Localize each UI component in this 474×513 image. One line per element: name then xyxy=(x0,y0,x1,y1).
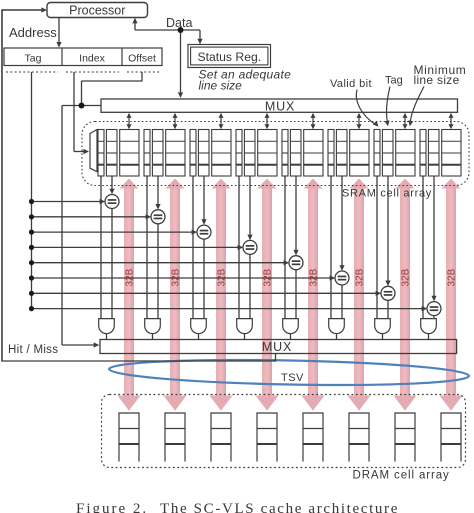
node tag bus junction 3 xyxy=(29,230,34,235)
MUX (upper, line-size select) xyxy=(101,99,458,112)
svg-text:Valid bit: Valid bit xyxy=(330,78,372,90)
wire MUX-SRAM bidirectional arrow 6 xyxy=(358,117,360,126)
wire AND gate 3 output to MUX xyxy=(198,334,200,340)
wire MUX-SRAM bidirectional arrow 1 xyxy=(128,117,130,126)
wire comparator 6 output xyxy=(341,285,343,319)
comparator 8 xyxy=(427,302,441,316)
SRAM way 3 tag column xyxy=(198,130,209,177)
wire comparator 4 output xyxy=(249,254,251,318)
pink data path arrow 7 (SRAM-DRAM 32B transfer) xyxy=(394,179,417,411)
wire Index field to row decoder xyxy=(73,72,75,152)
SRAM way 1 tag column xyxy=(106,130,117,177)
wire tag compare bus 8 xyxy=(32,308,423,310)
SRAM way 6 data column xyxy=(350,130,369,177)
SRAM way 3 data column xyxy=(212,130,231,177)
wire stored tag 8 to comparator xyxy=(433,176,435,296)
row decoder trapezoid xyxy=(90,130,97,172)
svg-text:MUX: MUX xyxy=(262,340,292,354)
SRAM cell array dashed box xyxy=(82,122,469,186)
SRAM way 5 data column xyxy=(304,130,323,177)
SRAM way 7 data column xyxy=(396,130,415,177)
DRAM bank 3 cells xyxy=(210,413,212,462)
DRAM bank 2 cells xyxy=(164,413,166,462)
wire AND gate 1 output to MUX xyxy=(106,334,108,340)
AND gate 2 xyxy=(145,319,161,334)
wire valid bit 3 to gate xyxy=(192,176,194,319)
node tag bus junction 8 xyxy=(29,306,34,311)
SRAM way 5 valid-bit column xyxy=(282,130,288,177)
wire tag compare bus 2 xyxy=(32,216,147,218)
wire comparator 3 output xyxy=(203,239,205,319)
SRAM way 4 tag column xyxy=(244,130,255,177)
svg-text:Address: Address xyxy=(9,25,57,40)
wire stored tag 3 to comparator xyxy=(203,176,205,220)
svg-text:DRAM cell array: DRAM cell array xyxy=(353,470,450,482)
wire valid bit 7 to gate xyxy=(376,176,378,319)
wire comparator 8 output xyxy=(433,316,435,319)
comparator 2 xyxy=(151,210,165,224)
wire valid bit 4 to gate xyxy=(238,176,240,319)
wire AND gate 4 output to MUX xyxy=(244,334,246,340)
wire tag compare bus 7 xyxy=(32,292,377,294)
wire tag compare bus 3 xyxy=(32,231,193,233)
SRAM way 8 data column xyxy=(442,130,461,177)
svg-text:line size: line size xyxy=(414,73,460,87)
svg-text:Status Reg.: Status Reg. xyxy=(197,50,261,64)
SRAM way 4 data column xyxy=(258,130,277,177)
wire MUX-SRAM bidirectional arrow 8 xyxy=(450,117,452,126)
SRAM way 8 valid-bit column xyxy=(420,130,426,177)
wire tag compare bus 5 xyxy=(32,262,285,264)
DRAM bank 1 cells xyxy=(118,413,120,462)
wire valid bit 1 to gate xyxy=(100,176,102,319)
AND gate 5 xyxy=(283,319,299,334)
SRAM way 6 valid-bit column xyxy=(328,130,334,177)
pink data path arrow 2 (SRAM-DRAM 32B transfer) xyxy=(164,179,187,411)
SRAM way 2 tag column xyxy=(152,130,163,177)
AND gate 7 xyxy=(375,319,391,334)
wire AND gate 8 output to MUX xyxy=(428,334,430,340)
wire comparator 5 output xyxy=(295,270,297,319)
node offset junction xyxy=(79,103,85,109)
wire MUX-SRAM bidirectional arrow 4 xyxy=(266,117,268,126)
wire data net with junction xyxy=(134,23,136,31)
callout valid bit xyxy=(356,90,375,125)
node tag bus junction 6 xyxy=(29,275,34,280)
comparator 6 xyxy=(335,271,349,285)
wire tag compare bus 1 xyxy=(32,201,101,203)
wire stored tag 4 to comparator xyxy=(249,176,251,235)
node tag bus junction 7 xyxy=(29,291,34,296)
wire AND gate 2 output to MUX xyxy=(152,334,154,340)
wire valid bit 6 to gate xyxy=(330,176,332,319)
node data junction xyxy=(178,27,184,33)
comparator 3 xyxy=(197,225,211,239)
wire return-data into processor xyxy=(2,9,43,11)
svg-text:line size: line size xyxy=(199,78,243,92)
svg-text:Tag: Tag xyxy=(385,75,403,87)
wire stored tag 1 to comparator xyxy=(111,176,113,189)
svg-text:Tag: Tag xyxy=(25,53,42,65)
wire MUX-SRAM bidirectional arrow 2 xyxy=(174,117,176,126)
wire AND gate 7 output to MUX xyxy=(382,334,384,340)
SRAM way 5 tag column xyxy=(290,130,301,177)
AND gate 6 xyxy=(329,319,345,334)
TSV ellipse xyxy=(109,357,469,388)
wire stored tag 2 to comparator xyxy=(157,176,159,204)
wire valid bit 2 to gate xyxy=(146,176,148,319)
pink data path arrow 6 (SRAM-DRAM 32B transfer) xyxy=(348,179,371,411)
node tag bus junction 1 xyxy=(29,199,34,204)
SRAM way 2 data column xyxy=(166,130,185,177)
wire stored tag 5 to comparator xyxy=(295,176,297,250)
svg-text:Offset: Offset xyxy=(128,53,156,65)
pink data path arrow 3 (SRAM-DRAM 32B transfer) xyxy=(210,179,233,411)
SRAM way 2 valid-bit column xyxy=(144,130,150,177)
callout minimum line size xyxy=(410,87,424,122)
SRAM way 7 tag column xyxy=(382,130,393,177)
comparator 4 xyxy=(243,240,257,254)
wire tag compare bus 6 xyxy=(32,277,331,279)
svg-text:Processor: Processor xyxy=(69,4,125,18)
wire comparator 1 output xyxy=(111,209,113,319)
wire valid bit 8 to gate xyxy=(422,176,424,319)
wire MUX-SRAM bidirectional arrow 5 xyxy=(312,117,314,126)
AND gate 4 xyxy=(237,319,253,334)
DRAM cell array dashed box xyxy=(102,395,466,468)
comparator 1 xyxy=(105,195,119,209)
wire processor to address register xyxy=(58,18,60,44)
node tag bus junction 5 xyxy=(29,260,34,265)
svg-text:Hit / Miss: Hit / Miss xyxy=(8,344,58,356)
callout tag xyxy=(387,87,390,122)
AND gate 1 xyxy=(99,319,115,334)
node tag bus junction 2 xyxy=(29,214,34,219)
svg-text:The SC-VLS cache architecture: The SC-VLS cache architecture xyxy=(160,501,399,513)
svg-text:32B: 32B xyxy=(355,268,366,286)
DRAM bank 6 cells xyxy=(348,413,350,462)
AND gate 8 xyxy=(421,319,437,334)
SRAM way 6 tag column xyxy=(336,130,347,177)
processor box xyxy=(47,3,148,18)
svg-text:Figure 2.: Figure 2. xyxy=(76,501,148,513)
DRAM bank 8 cells xyxy=(440,413,442,462)
svg-text:Index: Index xyxy=(79,53,105,65)
node tag bus junction 4 xyxy=(29,245,34,250)
wire stored tag 7 to comparator xyxy=(387,176,389,281)
DRAM bank 7 cells xyxy=(394,413,396,462)
wire MUX-SRAM bidirectional arrow 7 xyxy=(404,117,406,126)
pink data path arrow 1 (SRAM-DRAM 32B transfer) xyxy=(118,179,141,411)
pink data path arrow 4 (SRAM-DRAM 32B transfer) xyxy=(256,179,279,411)
wire Tag field down-bus xyxy=(31,72,33,309)
svg-text:TSV: TSV xyxy=(281,372,304,384)
svg-text:32B: 32B xyxy=(447,268,458,286)
svg-text:SRAM cell array: SRAM cell array xyxy=(342,188,432,200)
wire comparator 2 output xyxy=(157,224,159,319)
SRAM way 1 data column xyxy=(120,130,139,177)
wire comparator 7 output xyxy=(387,300,389,318)
dashed field width marks xyxy=(6,71,58,73)
AND gate 3 xyxy=(191,319,207,334)
wire stored tag 6 to comparator xyxy=(341,176,343,266)
wire Offset field to MUXes xyxy=(141,72,143,82)
DRAM bank 5 cells xyxy=(302,413,304,462)
comparator 7 xyxy=(381,286,395,300)
wire MUX-SRAM bidirectional arrow 3 xyxy=(220,117,222,126)
DRAM bank 4 cells xyxy=(256,413,258,462)
pink data path arrow 5 (SRAM-DRAM 32B transfer) xyxy=(302,179,325,411)
pink data path arrow 8 (SRAM-DRAM 32B transfer) xyxy=(440,179,463,411)
SRAM way 1 valid-bit column xyxy=(98,130,104,177)
wire bottom return from lower MUX xyxy=(1,360,275,362)
MUX (lower) outline xyxy=(100,340,457,354)
SRAM way 8 tag column xyxy=(428,130,439,177)
svg-text:32B: 32B xyxy=(401,268,412,286)
svg-text:MUX: MUX xyxy=(265,100,295,114)
SRAM way 7 valid-bit column xyxy=(374,130,380,177)
wire AND gate 5 output to MUX xyxy=(290,334,292,340)
MUX (lower, hit way select) fill xyxy=(100,340,457,354)
wire left vertical return bus xyxy=(1,9,3,361)
wire AND gate 6 output to MUX xyxy=(336,334,338,340)
address register box Tag/Index/Offset xyxy=(4,48,162,66)
comparator 5 xyxy=(289,256,303,270)
wire valid bit 5 to gate xyxy=(284,176,286,319)
SRAM way 3 valid-bit column xyxy=(190,130,196,177)
status register box (double border) xyxy=(188,45,271,68)
wire tag compare bus 4 xyxy=(32,246,239,248)
SRAM way 4 valid-bit column xyxy=(236,130,242,177)
